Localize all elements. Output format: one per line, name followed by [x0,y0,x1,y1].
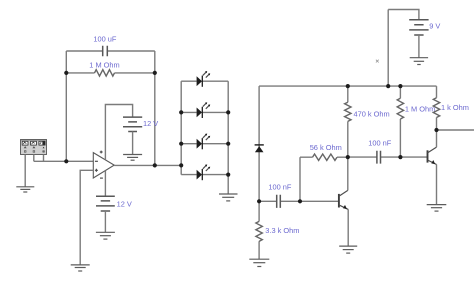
wire B3 to ground [418,35,420,58]
wire 9V supply top [388,10,419,20]
svg-text:100 nF: 100 nF [268,182,291,191]
node feedback left [64,71,68,75]
input device box [21,140,47,155]
node Q1 collector row [346,155,350,159]
x marker [376,60,379,63]
wire base Q2 [400,156,427,158]
node LED ladder entry [179,163,183,167]
wire diode branch vertical [258,86,260,201]
resistor R6 3.3 k Ohm [256,201,299,259]
battery B3 9 V [409,20,440,35]
node supply on rail [386,84,390,88]
wire op-amp V- down [104,171,106,197]
resistor R5 56 k Ohm [300,143,348,160]
wire feedback top-left vertical [65,51,67,73]
svg-text:12 V: 12 V [143,119,158,128]
transistor Q1 [339,190,348,209]
svg-text:3.3 k Ohm: 3.3 k Ohm [265,226,299,235]
svg-text:1 M Ohm: 1 M Ohm [405,104,435,113]
wire output to LED ladder [155,164,181,166]
ground under B2 [96,232,115,239]
ground under B1 [123,155,142,161]
battery B1 12 V [123,117,158,131]
ground under box [16,187,34,192]
wire 9V supply vertical [387,10,389,87]
ground under R6 [249,259,269,266]
wire op-amp plus input to ground [80,170,93,264]
wire feedback top-right vertical [154,51,156,73]
wire LED right rail [227,81,229,174]
wire node A to op-amp [66,160,93,162]
svg-text:100 nF: 100 nF [368,138,391,147]
svg-text:1 k Ohm: 1 k Ohm [441,103,469,112]
wire B1 to ground [132,132,134,155]
LED D4 row4 [181,164,228,180]
wire LED left rail [180,81,182,174]
node A inverting input [64,159,68,163]
op-amp U1 [93,151,114,179]
svg-text:1 M Ohm: 1 M Ohm [89,60,119,69]
ground under B3 [410,58,428,65]
capacitor C2 100 nF [259,182,300,208]
wire Q1 emitter down [347,209,349,246]
node rail right row3 [226,142,230,146]
LED D1 row1 [181,71,228,87]
svg-text:56 k Ohm: 56 k Ohm [310,143,342,152]
node 1M bottom [398,155,402,159]
wire right vertical to output [154,73,156,165]
wire box to node A [34,160,67,162]
node cap right [298,199,302,203]
node rail right row4 [226,173,230,177]
diode D5 [255,145,264,152]
ground under Q2 [427,205,447,212]
resistor R2 470 k Ohm [345,86,390,157]
capacitor C3 100 nF [348,138,401,163]
resistor R3 1 M Ohm [397,86,435,157]
wire left vertical to inverting input [65,73,67,161]
wire LED rail to ground [227,175,229,194]
node output right [434,128,438,132]
node output [153,163,157,167]
wire 56k corner down [299,157,301,201]
node 470k on rail [346,84,350,88]
wire Q2 collector up [436,130,438,147]
wire box pin1 to ground [24,155,26,187]
node rail right row2 [226,110,230,114]
svg-text:100 uF: 100 uF [93,34,116,43]
ground under LED rail [219,194,238,201]
wire main rail right section [259,85,436,87]
wire Q1 collector up [347,157,349,190]
wire box pin3 down [43,155,45,162]
node 1M on rail [398,84,402,88]
LED D2 row2 [181,102,228,118]
wire B2 to ground [104,211,106,232]
wire base Q1 [300,200,339,202]
ground under Q1 [339,246,357,253]
resistor R1 1 M Ohm [66,60,155,76]
transistor Q2 [428,147,437,164]
resistor R4 1 k Ohm [433,86,469,130]
svg-text:470 k Ohm: 470 k Ohm [354,110,390,119]
node cap left [257,199,261,203]
wire op-amp V+ up [105,105,132,160]
LED D3 row3 [181,134,228,150]
capacitor C1 100 uF [66,34,155,56]
wire box pin2 down [33,155,35,162]
battery B2 12 V [96,196,132,211]
ground at op-amp plus input [71,265,90,271]
wire output right edge [437,129,474,131]
node rail left row3 [179,142,183,146]
svg-text:9 V: 9 V [429,22,440,31]
wire Q2 emitter down [436,165,438,205]
node feedback right [153,71,157,75]
svg-text:12 V: 12 V [117,200,132,209]
wire op-amp output [114,164,155,166]
node rail left row2 [179,110,183,114]
